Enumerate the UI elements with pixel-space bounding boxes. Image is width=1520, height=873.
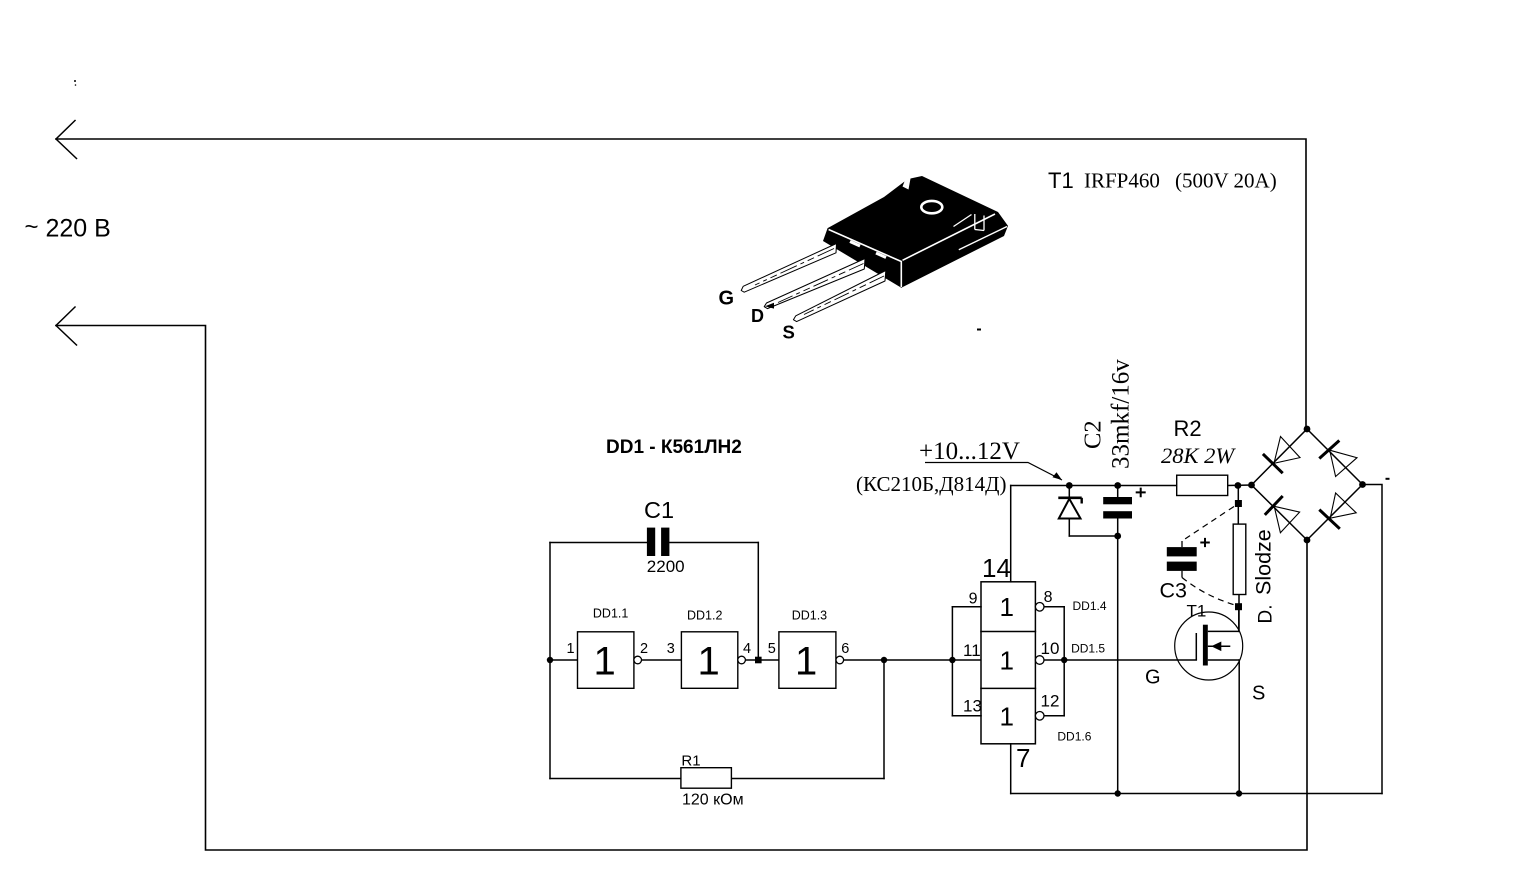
svg-text:+10...12V: +10...12V — [919, 438, 1020, 465]
svg-text:(КС210Б,Д814Д): (КС210Б,Д814Д) — [856, 472, 1006, 496]
wire: left pins bracket vertical — [951, 607, 953, 716]
node: rail source junction — [1236, 790, 1242, 796]
svg-text:D.: D. — [1256, 605, 1277, 624]
resistor R2 — [1161, 416, 1236, 496]
wire: C1 right vertical down to node 5 — [757, 543, 759, 661]
node: junction pin5 / C1 — [755, 657, 762, 664]
wire: DD1.3 out to IC2 input — [844, 659, 981, 661]
package corner notch — [954, 214, 985, 231]
wire: top AC line from arrow to bridge top — [56, 139, 1306, 429]
transistor T1 gate lead — [741, 244, 836, 293]
svg-text:S: S — [1252, 683, 1265, 705]
wire: DD1.1 out to DD1.2 in — [642, 659, 682, 661]
node: bridge right corner — [1359, 481, 1366, 488]
svg-text:DD1.4: DD1.4 — [1073, 599, 1107, 613]
svg-text:3: 3 — [667, 641, 675, 657]
node: rail C2 junction — [1115, 790, 1121, 796]
package top-face lower edge highlight — [829, 230, 902, 262]
inverter DD1.1 — [567, 607, 649, 689]
drain horizontal — [1208, 630, 1239, 632]
svg-text:2: 2 — [640, 641, 648, 657]
svg-text:8: 8 — [1044, 589, 1053, 606]
IC body DD1.4-6 — [981, 582, 1035, 744]
channel bar — [1203, 625, 1208, 666]
svg-text:T1: T1 — [1187, 602, 1207, 621]
load resistor (Slodze) — [1233, 524, 1246, 594]
svg-text:5: 5 — [768, 641, 776, 657]
svg-text:220 В: 220 В — [46, 215, 111, 243]
wire: pin 8 — [1043, 606, 1064, 608]
wire: left feedback vertical — [549, 543, 551, 779]
svg-text:DD1.2: DD1.2 — [687, 609, 722, 623]
wire: zener bottom lead — [1068, 519, 1070, 537]
svg-text:9: 9 — [969, 590, 978, 607]
svg-text:DD1 - К561ЛН2: DD1 - К561ЛН2 — [606, 437, 742, 458]
node: junction input DD1.1 — [547, 657, 553, 663]
drain vertical from node square — [1238, 607, 1240, 631]
wire: R1 right vertical up to node 6 — [883, 660, 885, 779]
svg-text:IRFP460: IRFP460 — [1084, 169, 1160, 193]
svg-text:120 кОм: 120 кОм — [682, 792, 744, 809]
wire: pin 9 — [952, 606, 981, 608]
wire: C1 top wire left — [550, 542, 647, 544]
svg-text:DD1.1: DD1.1 — [593, 607, 628, 621]
diode bridge D1 (top-left) — [1263, 437, 1300, 474]
wire: load top lead — [1237, 486, 1239, 525]
svg-text:10: 10 — [1041, 639, 1060, 658]
wire: load bottom lead to drain node — [1238, 595, 1240, 632]
svg-text:6: 6 — [841, 641, 849, 657]
transistor T1 drain lead — [764, 259, 865, 309]
wire: DD1.2 out to DD1.3 in — [745, 659, 779, 661]
svg-text:1: 1 — [795, 640, 817, 684]
svg-text:~: ~ — [25, 214, 39, 241]
svg-text:D: D — [751, 306, 764, 326]
wire: pin 10 — [1043, 659, 1064, 661]
gate electrode — [1195, 633, 1197, 660]
svg-text:4: 4 — [743, 641, 751, 657]
diode bridge D4 (bottom-right) — [1319, 493, 1356, 529]
node: load bottom / drain square — [1235, 603, 1242, 610]
node: R2 right / load top junction — [1235, 482, 1242, 489]
diode bridge D2 (top-right) — [1319, 441, 1357, 477]
svg-text:2200: 2200 — [647, 557, 685, 576]
node: junction at IC2 left — [949, 657, 955, 663]
node: junction pin6 / R1 — [881, 657, 887, 663]
speck right of bridge — [1386, 478, 1390, 480]
wire: arrowhead of bottom AC line — [56, 307, 77, 345]
wire: pin 13 — [952, 715, 981, 717]
node: bridge bottom corner — [1304, 537, 1311, 544]
capacitor C3 — [1160, 507, 1236, 606]
wire: C2 top lead — [1117, 486, 1119, 498]
package mounting hole — [921, 201, 942, 213]
capacitor C2 — [1103, 488, 1146, 519]
transistor T1 source lead — [793, 271, 885, 322]
wire: dashed link C3 bottom to load bottom — [1182, 578, 1235, 606]
inverter DD1.3 — [768, 609, 849, 689]
svg-text:C3: C3 — [1160, 579, 1188, 603]
svg-text:1: 1 — [1000, 646, 1014, 676]
source horizontal — [1208, 659, 1239, 661]
svg-text:DD1.6: DD1.6 — [1057, 730, 1091, 744]
svg-text:(500V 20A): (500V 20A) — [1175, 169, 1277, 193]
package lead slots — [850, 242, 886, 258]
wire: R1 bottom wire right — [731, 778, 884, 780]
node: pin10 junction — [1061, 657, 1067, 663]
svg-text:DD1.3: DD1.3 — [792, 609, 827, 623]
wire: input to DD1.1 — [550, 659, 578, 661]
svg-text:C2: C2 — [1080, 420, 1107, 449]
speck near package — [977, 329, 981, 331]
svg-text:R2: R2 — [1174, 416, 1202, 441]
zener diode VD1 — [1058, 498, 1081, 519]
node: load top square — [1235, 500, 1242, 507]
svg-text:1: 1 — [1000, 592, 1014, 622]
node: zener top — [1066, 482, 1073, 489]
wire: right pins bracket vertical — [1063, 607, 1065, 716]
wire: R1 bottom wire left — [550, 778, 681, 780]
svg-text:DD1.5: DD1.5 — [1071, 642, 1105, 656]
svg-text:S: S — [783, 322, 795, 343]
package lower lip highlight — [959, 227, 1007, 250]
svg-text:R1: R1 — [681, 753, 700, 770]
body arrow — [1208, 645, 1231, 647]
wire: C2 bottom lead down to rail — [1117, 519, 1119, 794]
wire: zener bottom to C2 — [1069, 535, 1117, 537]
node: bridge top corner — [1304, 426, 1311, 433]
wire: C1 top wire right — [669, 542, 758, 544]
svg-text:T1: T1 — [1048, 168, 1074, 193]
svg-text:11: 11 — [963, 641, 981, 660]
transistor T1 package body — [823, 176, 1008, 288]
node: C2 top — [1114, 482, 1121, 489]
svg-text:1: 1 — [1000, 702, 1014, 732]
wire: gate wire to MOSFET — [1064, 659, 1196, 661]
svg-text:G: G — [719, 288, 735, 310]
transistor T1 MOSFET symbol — [1175, 607, 1243, 680]
svg-text:28K 2W: 28K 2W — [1161, 443, 1236, 468]
svg-text:13: 13 — [963, 697, 982, 716]
wire: dashed link C3 top to load top — [1182, 507, 1234, 542]
wire: R2 right to bridge left — [1228, 484, 1252, 487]
node: C2 / zener bottom — [1114, 533, 1121, 540]
capacitor C1 — [644, 497, 685, 576]
resistor R1 — [681, 753, 744, 809]
wire: +12V top rail — [1011, 485, 1177, 487]
svg-text:33mkf/16v: 33mkf/16v — [1108, 359, 1135, 469]
wire: pin 7 vertical — [1010, 744, 1012, 794]
package right edge highlight — [903, 214, 996, 260]
wire: pin 12 — [1043, 715, 1064, 717]
inverter DD1.2 — [667, 609, 751, 689]
svg-text:C1: C1 — [644, 497, 674, 523]
wire: bridge right corner to right rail — [1363, 485, 1383, 794]
package corner vertical highlight — [900, 261, 902, 287]
inverter bubbles pins 8,10,12 — [1035, 603, 1044, 612]
node: bridge left corner — [1248, 482, 1255, 489]
svg-text:G: G — [1145, 667, 1161, 689]
svg-text:14: 14 — [982, 553, 1011, 583]
wire: pin 14 vertical — [1010, 486, 1012, 582]
diode bridge D3 (bottom-left) — [1265, 496, 1300, 533]
speck top left — [74, 80, 76, 82]
svg-text:1: 1 — [698, 640, 720, 684]
svg-text:1: 1 — [594, 640, 616, 684]
svg-text:7: 7 — [1016, 743, 1030, 773]
wire: arrowhead of top AC line — [56, 121, 77, 159]
wire: bridge sides — [1252, 429, 1363, 540]
svg-text:12: 12 — [1041, 692, 1060, 711]
wire: bottom rail — [1011, 793, 1382, 795]
wire: source vertical to rail — [1238, 660, 1240, 794]
wire: zener top lead — [1068, 486, 1070, 498]
svg-text:1: 1 — [567, 641, 575, 657]
wire: bottom AC line from arrow down and around to bridge bottom — [56, 326, 1307, 851]
svg-text:Slodze: Slodze — [1252, 529, 1276, 595]
